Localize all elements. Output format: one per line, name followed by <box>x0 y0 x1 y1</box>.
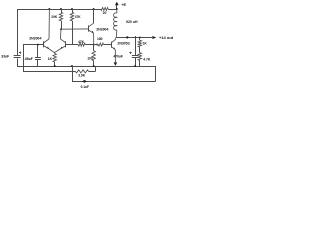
svg-text:+E: +E <box>121 2 126 7</box>
wire Q1 base <box>23 44 44 46</box>
wire R7 to junction <box>85 44 93 46</box>
node rail junction Q2 collector <box>93 8 95 10</box>
wire bottom return line <box>72 81 156 83</box>
node output junction <box>126 36 128 38</box>
wire R3 bottom to base net of Q1b <box>72 21 74 45</box>
node second junction <box>96 44 98 46</box>
wire 47K h-res from Q2 base <box>66 44 79 46</box>
wire between divider resistors <box>139 47 141 53</box>
capacitor C2 .68uF <box>37 45 39 58</box>
svg-text:20: 20 <box>103 11 107 15</box>
node R3 bottom stub <box>71 65 73 67</box>
wire bottom return drop <box>72 71 74 81</box>
resistor R3 47K vertical <box>72 9 74 12</box>
node rail junction R3 <box>71 8 73 10</box>
svg-text:4.7K: 4.7K <box>143 57 151 61</box>
output arrow <box>152 36 156 39</box>
wire below C1 to ground rail <box>17 58 19 66</box>
wire Q1 base corner drop <box>23 45 25 72</box>
inductor L1 920uH coil <box>116 9 118 13</box>
wire Q4 collector to output line <box>114 37 117 39</box>
wire Q3 emitter down <box>93 33 95 45</box>
wire diff pair emitter join <box>49 49 60 52</box>
wire top rail right of 20-ohm resistor <box>108 9 117 11</box>
node A junction <box>60 28 62 30</box>
wire R8 to Q4 base <box>104 44 111 46</box>
svg-text:.68uF: .68uF <box>24 57 33 61</box>
capacitor C1 33uF plates <box>14 55 21 57</box>
svg-text:2N3904: 2N3904 <box>29 37 41 41</box>
wire left drop from rail to C1 <box>17 9 19 55</box>
svg-text:470uF: 470uF <box>113 54 123 58</box>
svg-text:2N3053: 2N3053 <box>117 41 129 45</box>
resistor R9 100 <box>93 45 95 51</box>
wire output line <box>116 37 152 39</box>
wire feedback line <box>23 71 75 73</box>
svg-text:47K: 47K <box>78 40 85 44</box>
resistor R5 1K diff tail <box>53 54 56 63</box>
node Q1 base / C2 junction <box>37 44 39 46</box>
wire Q4 emitter to ground <box>114 50 116 63</box>
tick C3 connection <box>135 36 137 39</box>
wire Q3 collector to rail <box>93 9 95 23</box>
svg-text:180: 180 <box>97 37 103 41</box>
svg-text:29K: 29K <box>51 15 58 19</box>
node Q3 emitter junction <box>93 44 95 46</box>
transistor Q2 2N3904 right of diff pair <box>65 41 67 47</box>
svg-text:0.1uF: 0.1uF <box>81 85 89 89</box>
svg-text:100: 100 <box>87 56 93 60</box>
wire Q1 collector to rail <box>48 9 50 39</box>
resistor R7 47K horizontal <box>78 43 85 46</box>
transistor Q3 2N3904 driver <box>88 25 90 31</box>
node rail junction R2 <box>60 8 62 10</box>
svg-text:1K: 1K <box>143 41 148 45</box>
node rail junction R1 <box>48 8 50 10</box>
svg-text:47K: 47K <box>75 15 82 19</box>
svg-text:+14 out: +14 out <box>159 35 174 40</box>
resistor R8 180 horizontal <box>98 43 103 46</box>
wire junction to R8 <box>94 44 99 46</box>
power symbol +E arrow <box>116 5 118 9</box>
capacitor C5 0.1uF feedthrough <box>82 80 85 83</box>
transistor Q4 2N3053 <box>111 42 113 48</box>
wire Q2 collector to node A <box>59 29 62 39</box>
svg-text:3.9K: 3.9K <box>78 74 86 78</box>
svg-text:2N3904: 2N3904 <box>96 27 108 31</box>
capacitor C1 plus sign <box>19 52 21 54</box>
node tail ground junction <box>54 65 56 67</box>
capacitor C3 470uF <box>135 37 137 55</box>
wire node A to Q3 base <box>61 28 89 30</box>
node divider junction <box>139 36 141 38</box>
resistor R2 29K vertical <box>61 9 63 12</box>
resistor R6 3.9K feedback <box>75 70 88 73</box>
wire R6 right to ground rail <box>89 71 96 73</box>
node R9 ground junction <box>93 65 95 67</box>
wire rail stub to feedback line <box>72 66 74 71</box>
svg-text:920 uH: 920 uH <box>126 20 138 24</box>
wire top supply rail <box>17 9 101 11</box>
resistor R11 4.7K divider bottom <box>138 53 141 61</box>
node C3 ground junction <box>134 65 136 67</box>
resistor R4 20 in supply rail <box>101 8 108 11</box>
ground arrow at Q4 emitter <box>114 62 118 66</box>
node supply junction <box>116 8 118 10</box>
resistor R10 1K divider top <box>139 37 141 40</box>
transistor Q1 2N3904 left of diff pair <box>43 41 45 47</box>
wire R2 bottom to node A <box>61 21 63 29</box>
svg-text:33uF: 33uF <box>1 55 9 59</box>
capacitor C3 plus sign <box>130 52 132 54</box>
wire right return riser <box>155 66 157 81</box>
svg-text:1K: 1K <box>48 57 53 61</box>
wire bottom ground rail <box>17 66 156 68</box>
